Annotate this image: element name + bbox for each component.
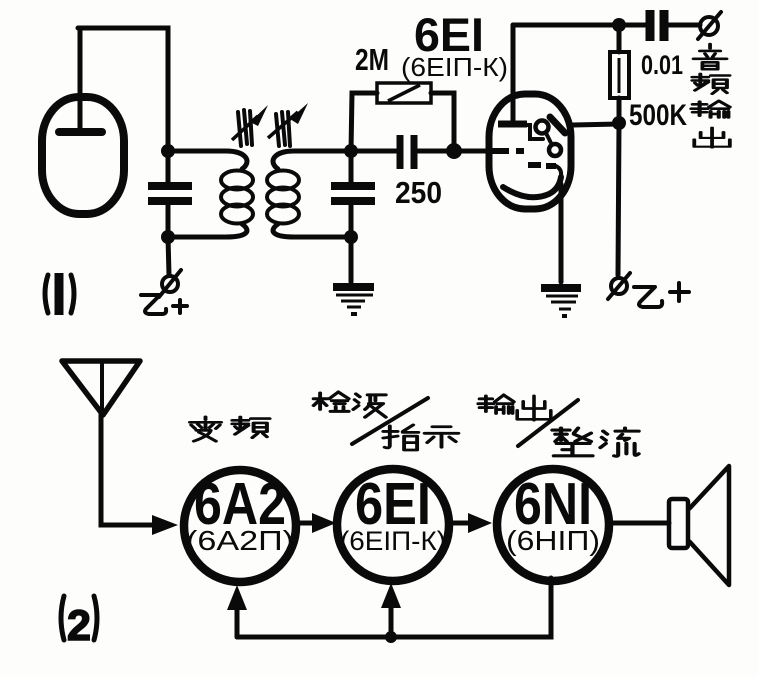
svg-text:500K: 500K (629, 99, 687, 132)
label 乙+ right (634, 283, 689, 307)
wire node E to tube grid (454, 149, 500, 154)
wire+arrow 6A2 to 6EI (297, 513, 336, 533)
label 6EI (414, 8, 484, 61)
label 0.01 (641, 50, 683, 80)
node B junction (161, 230, 175, 244)
wire C2 to node D (349, 204, 354, 237)
tube V2 grid dashes (input) (490, 148, 524, 154)
wire node C to capacitor 250 (355, 149, 396, 154)
node D junction (344, 230, 358, 244)
terminal audio output (circle with slash) (698, 12, 721, 39)
tube V2 internal step wire (527, 125, 543, 139)
tube V2 link between circles (546, 133, 551, 143)
terminal B+ left (circle with slash) (159, 270, 181, 297)
tube V2 anode plate (498, 121, 527, 128)
node E junction (446, 143, 462, 159)
wire tube V2 output to node G (573, 124, 619, 125)
terminal B+ right (circle with slash) (608, 273, 630, 299)
label 检波/指示 (314, 392, 459, 450)
arrow into 6A2 (152, 515, 178, 535)
svg-text:(6ЕIП-К): (6ЕIП-К) (340, 526, 446, 556)
wire node F to capacitor 0.01 (619, 23, 645, 28)
svg-text:2M: 2M (355, 42, 389, 77)
label 输出/整流 (478, 395, 638, 456)
block 6NI circle (497, 469, 609, 581)
tube V1 anode plate (59, 128, 102, 136)
tube V2 6E1 envelope (489, 94, 571, 209)
label (6EIП-K) (340, 526, 446, 556)
block 6EI circle (337, 469, 449, 581)
wire C1 to node B (166, 204, 171, 237)
node H junction (feedback) (385, 631, 397, 643)
label (6A2П) (186, 525, 294, 556)
wire node D to ground (349, 237, 354, 282)
ground G2 (541, 288, 581, 316)
antenna (62, 361, 140, 415)
svg-text:0.01: 0.01 (641, 50, 683, 80)
ground G1 (333, 287, 374, 314)
label 6A2 (194, 471, 286, 537)
svg-text:(6НIП): (6НIП) (506, 525, 600, 556)
wire 2M right side down to node E (431, 93, 454, 148)
capacitor 250 (coupling) (400, 135, 414, 169)
capacitor C1 (tuning, primary) (148, 186, 192, 201)
block 6A2 circle (184, 470, 296, 582)
label 乙+ left (141, 295, 187, 314)
wire+arrow 6EI to 6NI (450, 513, 492, 533)
label (6EIП-K) (401, 52, 508, 82)
wire antenna to block 6A2 (101, 413, 155, 525)
feedback arrow up into 6A2 (227, 585, 247, 637)
wire capacitor 250 to node E (418, 149, 454, 154)
wire 6NI to speaker (610, 521, 669, 526)
svg-text:250: 250 (395, 175, 442, 210)
svg-text:2: 2 (67, 602, 91, 650)
wire node A down to C1 (166, 151, 171, 182)
transformer T1 secondary winding (267, 151, 351, 237)
label 2M (355, 42, 389, 77)
wire node F down to resistor 500K (617, 25, 622, 52)
tube V1 envelope (diode detector) (42, 97, 124, 214)
wire V1 plate lead up (78, 28, 83, 131)
label 6NI (514, 471, 592, 537)
svg-text:(6ЕIП-К): (6ЕIП-К) (401, 52, 508, 82)
wire V2 plate lead up (511, 25, 516, 122)
label 变频 (190, 417, 270, 441)
capacitor C2 (tuning, secondary) (331, 186, 375, 201)
adjustable core mark right (hatches with arrow) (268, 103, 308, 146)
tube V2 lower grid dashes (528, 165, 561, 176)
wire node G down to terminal B+ right (618, 123, 619, 275)
label (1) (45, 273, 74, 315)
node G junction (612, 116, 626, 130)
label 音频输出 (vertical) (691, 44, 729, 147)
adjustable core mark left (hatches with arrow) (232, 105, 268, 146)
label (6НIП) (506, 525, 600, 556)
resistor 2M (box with diagonal) (377, 83, 431, 103)
wire V2 cathode down to ground (559, 184, 564, 282)
wire V2 plate top to node F (513, 23, 619, 28)
svg-text:(6А2П): (6А2П) (186, 525, 294, 556)
tube V2 deflection bar (thick diagonal) (550, 117, 565, 133)
transformer T1 primary winding (168, 151, 253, 237)
wire node C down to C2 (349, 151, 354, 182)
node F junction (612, 18, 626, 32)
capacitor 0.01 (output coupling) (650, 10, 664, 41)
speaker (669, 466, 729, 585)
wire top to node A (78, 28, 168, 150)
tube V2 target electrode circle 2 (549, 144, 561, 156)
tube V2 cathode arc (503, 177, 561, 197)
feedback wire from 6NI (237, 578, 551, 637)
wire node C up to 2M branch (351, 93, 377, 151)
tube V2 target electrode circle 1 (536, 121, 549, 134)
feedback arrow up into 6EI (381, 583, 401, 637)
wire capacitor 0.01 to output terminal (669, 23, 700, 28)
node C junction (secondary top) (344, 144, 358, 158)
label 6EI (355, 471, 431, 537)
node A junction (161, 144, 175, 158)
wire resistor 500K to node G (617, 98, 622, 123)
label 250 (395, 175, 442, 210)
label (2) (61, 596, 97, 650)
resistor 500K (box) (610, 52, 629, 98)
wire node B to terminal (168, 237, 169, 275)
label 500K (629, 99, 687, 132)
